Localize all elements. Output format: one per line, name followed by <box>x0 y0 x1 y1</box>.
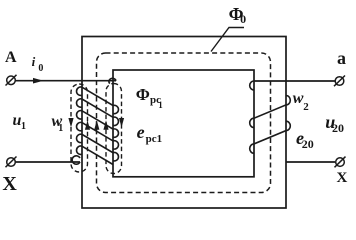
leakage flux capsule 1 (dashed, around left half of w1) <box>71 84 88 172</box>
core inner rectangle (window) <box>113 70 254 177</box>
wire: terminal A to winding w1 <box>16 80 117 82</box>
label w1 <box>52 114 63 130</box>
label e pc1 <box>137 123 145 141</box>
label w2 <box>293 91 304 107</box>
core outer rectangle <box>82 37 286 209</box>
wire: terminal X to winding w1 bottom <box>16 161 81 163</box>
label Phi0 <box>229 5 244 23</box>
label A <box>5 50 17 66</box>
node A terminal <box>6 75 17 86</box>
main flux path Φ0 (dashed rounded rect) <box>97 53 271 193</box>
label X <box>2 174 16 194</box>
leakage flux capsule 2 (dashed, around right half of w1) <box>106 84 122 174</box>
label Phi pc1 <box>136 86 150 103</box>
winding w2 (secondary coil on right leg) <box>250 81 291 153</box>
label x <box>337 171 348 186</box>
node x terminal <box>335 157 346 168</box>
wire: winding w2 bottom to terminal x <box>286 161 335 163</box>
label a <box>337 49 346 67</box>
wire: winding w2 to terminal a <box>254 80 335 82</box>
label u1 <box>13 113 22 129</box>
node a terminal <box>334 76 345 87</box>
current arrow i0 <box>33 78 44 84</box>
flux Φ0 label leader line <box>211 28 244 52</box>
label i0 <box>32 55 36 68</box>
label e20 <box>296 129 304 147</box>
node X terminal <box>6 157 17 168</box>
flux arrows in w1 (up: leakage + main flux, down: return paths) <box>68 118 124 130</box>
winding w1 (primary coil on left leg) <box>72 78 118 164</box>
label u20 <box>325 113 335 131</box>
